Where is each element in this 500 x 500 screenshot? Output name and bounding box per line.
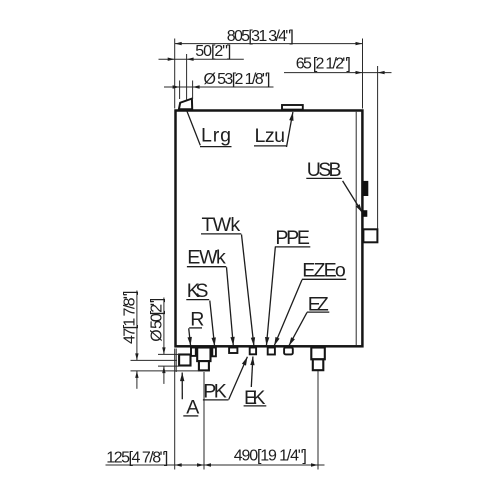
label EZ: [307, 293, 329, 315]
dimension diam50 line upper: [162, 298, 165, 355]
dimension 47 line upper: [135, 291, 138, 361]
leader A: [180, 373, 184, 400]
tab EK/PK target: [250, 348, 256, 355]
dimension diam50 text: [148, 298, 165, 342]
leader PK: [229, 357, 248, 400]
leader EZ: [289, 312, 307, 345]
svg-text:Lzu: Lzu: [255, 125, 286, 147]
extension line R hole top: [158, 353, 179, 355]
dimension bottom line: [106, 463, 325, 466]
tab KS (narrow): [212, 348, 216, 357]
extension line hole53 left: [179, 81, 181, 100]
tab EWk: [229, 348, 237, 354]
dimension 47 text: [121, 291, 138, 345]
svg-text:EWk: EWk: [187, 247, 226, 269]
svg-text:50[2"]: 50[2"]: [195, 43, 231, 60]
leader PPE: [265, 247, 275, 345]
connector R (round pipe side view): [179, 355, 190, 366]
svg-text:EZEo: EZEo: [302, 259, 346, 281]
label EWk: [187, 247, 226, 269]
leader EWk: [227, 267, 235, 345]
extension line hole53 right: [192, 81, 194, 100]
right bottom pipe step: [313, 359, 324, 370]
svg-text:65 [2 1/2"]: 65 [2 1/2"]: [296, 55, 351, 72]
connector Lrg (top-left vent): [179, 99, 192, 110]
svg-text:490[19 1/4"]: 490[19 1/4"]: [234, 448, 307, 465]
label R: [189, 309, 204, 331]
extension line right pipe center: [317, 371, 319, 470]
label Lzu: [254, 125, 286, 147]
leader EZEo: [274, 280, 302, 346]
svg-text:USB: USB: [307, 159, 342, 181]
svg-text:805[31 3/4"]: 805[31 3/4"]: [227, 28, 294, 45]
leader R: [188, 328, 192, 345]
extension line A plane: [131, 370, 200, 372]
label EK: [244, 387, 267, 409]
USB small stub (black): [362, 210, 368, 217]
dimension 805 [31 3/4"] line: [175, 42, 363, 45]
extension line Lrg center: [186, 54, 188, 100]
leader KS: [210, 301, 216, 347]
svg-text:Lrg: Lrg: [201, 124, 231, 146]
svg-text:Ø 50[2"]: Ø 50[2"]: [148, 298, 165, 342]
label USB: [306, 159, 342, 181]
leader Lzu: [287, 112, 294, 147]
dimension 47 line lower: [135, 371, 138, 389]
label KS: [186, 280, 209, 302]
leader USB: [343, 181, 363, 213]
dimension diam 53 line: [164, 85, 274, 88]
connector Lzu (top air inlet): [282, 105, 303, 110]
label TWk: [201, 214, 241, 236]
leader TWk: [242, 235, 256, 347]
label Lrg: [200, 124, 232, 146]
tab left of PK (narrow): [191, 348, 196, 356]
extension line box left edge (top): [174, 39, 176, 109]
leader EK: [250, 357, 254, 388]
label PK: [203, 381, 229, 403]
right pipe stub: [363, 229, 377, 242]
main body outline: [176, 111, 363, 347]
svg-text:Ø 53[2 1/8"]: Ø 53[2 1/8"]: [204, 71, 271, 88]
extension line R hole center: [131, 359, 178, 361]
dimension 50 [2"] line: [159, 58, 244, 61]
leader Lrg: [187, 111, 201, 146]
extension line PK center: [203, 372, 205, 470]
svg-text:125[4 7/8"]: 125[4 7/8"]: [106, 449, 168, 466]
svg-text:A: A: [186, 396, 200, 418]
tab PPE/EZEo target: [268, 348, 275, 355]
svg-text:PPE: PPE: [275, 227, 310, 249]
label PPE: [275, 227, 311, 249]
extension line R hole bottom: [158, 365, 179, 367]
USB port (black): [363, 181, 369, 196]
svg-text:KS: KS: [187, 280, 209, 302]
dimension 65 [2 1/2"] line: [284, 71, 392, 74]
extension line second (bottom): [175, 349, 177, 373]
label A: [183, 396, 200, 418]
extension line stub right edge: [377, 66, 379, 229]
tab EZ target: [284, 348, 293, 355]
svg-text:TWk: TWk: [202, 214, 241, 236]
dimension diam50 line lower: [162, 366, 165, 384]
label EZEo: [302, 259, 346, 281]
extension line box right edge (top): [362, 39, 364, 109]
connector PK block: [197, 348, 210, 362]
right bottom pipe block: [311, 348, 325, 360]
svg-text:47[1 7/8"]: 47[1 7/8"]: [121, 291, 138, 345]
extension line box left edge (bottom): [174, 349, 176, 470]
connector PK lower step (A plane): [199, 361, 209, 370]
inner right edge line: [355, 112, 357, 345]
